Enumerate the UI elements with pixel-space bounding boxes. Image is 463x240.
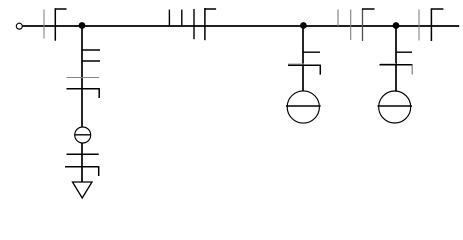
capacitor C2 black plate with hook: [67, 88, 100, 98]
node J1 junction dot: [79, 22, 86, 29]
capacitor C3 plate 2 with hook: [65, 166, 99, 176]
ground: [73, 182, 93, 198]
wire: branch 3 vertical: [395, 26, 397, 92]
capacitor C6 second plate with top arm: [362, 9, 375, 42]
capacitor C6 gray plate: [350, 10, 352, 41]
capacitor C4 plate 2 with top arm: [204, 8, 216, 40]
source V1 chord: [75, 134, 92, 136]
machine M1 circle: [287, 91, 319, 123]
stub S4 of C6: [337, 10, 339, 27]
capacitor C3 plate 1: [67, 153, 99, 155]
capacitor C5 gray plate: [288, 63, 304, 65]
source V1 circle: [75, 127, 91, 143]
capacitor C7 gray hook: [411, 65, 413, 75]
stub S1b of C2: [82, 60, 100, 62]
stub S3 of C5: [303, 51, 320, 53]
capacitor C5 black plate with hook: [288, 65, 320, 75]
capacitor C8 gray plate: [418, 9, 420, 40]
stub S2b of C4: [181, 10, 183, 27]
stub S2a of C4: [168, 10, 170, 27]
wire: branch 1 vertical lower: [81, 143, 83, 183]
machine M2 chord: [378, 105, 413, 107]
stub S5 of C7: [396, 51, 412, 53]
capacitor C7 plate: [380, 64, 413, 66]
stub S1a of C2: [82, 49, 100, 51]
input terminal P1: [16, 23, 22, 29]
node J3 junction dot: [393, 22, 400, 29]
machine M1 chord: [286, 105, 321, 107]
capacitor C2 gray plate: [67, 77, 100, 79]
wire: branch 2 vertical: [302, 26, 304, 92]
capacitor C1 gray plate: [43, 10, 45, 39]
capacitor C8 black plate with top arm: [431, 9, 444, 42]
capacitor C4 plate 1: [193, 9, 195, 39]
wire: branch 1 vertical upper: [81, 26, 83, 128]
machine M2 circle: [379, 91, 411, 123]
capacitor C1 black plate with top arm: [55, 8, 67, 40]
wire: top bus from terminal to right edge: [23, 25, 460, 27]
capacitor C7 gray fringe: [380, 63, 396, 65]
node J2 junction dot: [300, 22, 307, 29]
